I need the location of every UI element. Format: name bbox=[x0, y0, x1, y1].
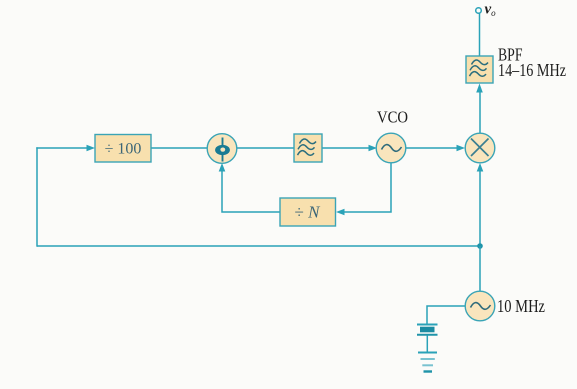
mixer (×) bbox=[465, 133, 495, 163]
arrowhead into BPF bottom bbox=[476, 84, 483, 93]
junction dot (feedback tap) bbox=[477, 243, 483, 249]
node v_o output terminal bbox=[476, 8, 482, 14]
wire: feedback left vertical riser bbox=[36, 147, 38, 246]
wire: VCO output to mixer bbox=[406, 147, 458, 149]
wire: junction up to mixer bottom bbox=[479, 170, 481, 246]
divider ÷N bbox=[280, 198, 336, 226]
oscillator 10 MHz bbox=[465, 291, 495, 321]
ground bbox=[418, 353, 437, 372]
svg-text:÷ N: ÷ N bbox=[295, 203, 322, 222]
BPF block bbox=[466, 56, 493, 83]
wire: feedback horizontal bottom run (junction to far left) bbox=[37, 245, 480, 247]
crystal Y1 (reference crystal) bbox=[417, 325, 438, 335]
arrowhead into phase detector bottom bbox=[219, 163, 226, 172]
svg-text:14–16 MHz: 14–16 MHz bbox=[498, 60, 566, 80]
VCO (oscillator circle) bbox=[376, 133, 406, 163]
wire: ÷100 output to phase detector bbox=[151, 147, 208, 149]
arrowhead into ÷N right side bbox=[336, 209, 345, 216]
arrowhead into VCO bbox=[369, 145, 378, 152]
wire: crystal to ground bbox=[426, 336, 428, 353]
arrowhead into ÷100 bbox=[87, 145, 96, 152]
wire: BPF top to output terminal bbox=[479, 13, 481, 56]
arrowhead into mixer left bbox=[457, 145, 466, 152]
wire: ÷N output to phase detector bottom bbox=[222, 170, 280, 212]
divider ÷100 bbox=[95, 135, 151, 163]
svg-text:10 MHz: 10 MHz bbox=[497, 296, 545, 316]
arrowhead into mixer bottom bbox=[477, 163, 484, 172]
phase detector U1 (Φ) bbox=[207, 134, 237, 164]
wire: loop filter to VCO bbox=[322, 147, 370, 149]
wire: phase detector to loop filter bbox=[237, 147, 294, 149]
svg-text:÷ 100: ÷ 100 bbox=[105, 141, 142, 158]
wire: into divider ÷100 input bbox=[36, 147, 88, 149]
wire: junction down to 10 MHz oscillator bbox=[479, 246, 481, 291]
svg-text:VCO: VCO bbox=[377, 108, 408, 127]
wire: oscillator left to crystal bbox=[427, 306, 465, 324]
loop filter bbox=[294, 134, 322, 162]
wire: mixer top up to BPF bbox=[479, 92, 481, 133]
wire: VCO down branch to ÷N bbox=[343, 163, 391, 212]
